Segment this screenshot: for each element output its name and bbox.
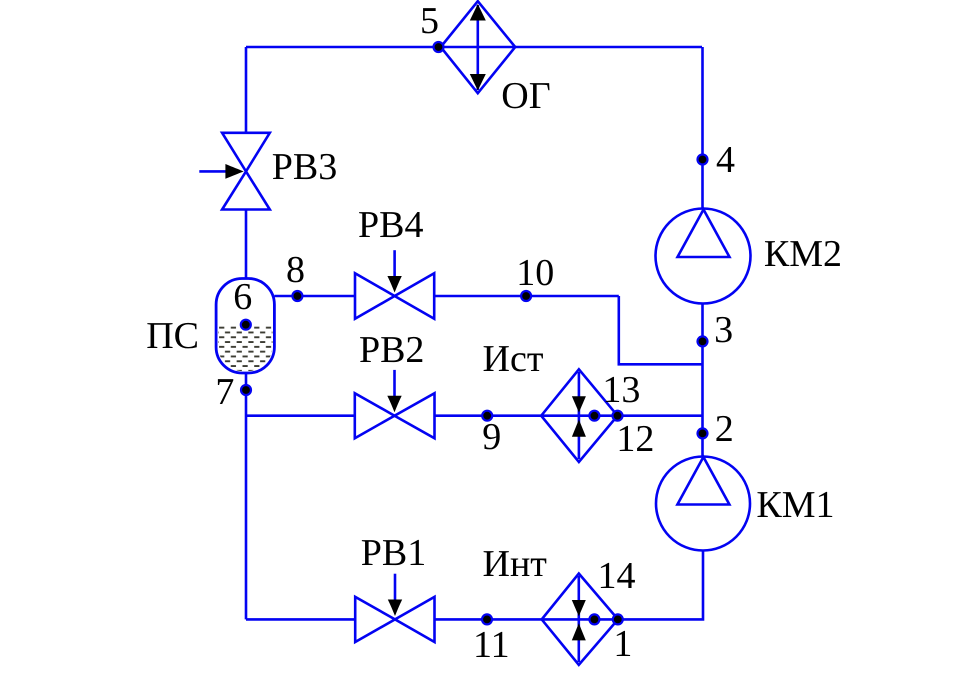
svg-text:13: 13	[602, 369, 640, 411]
node 14	[589, 555, 635, 624]
node 7	[215, 371, 251, 413]
node 3	[698, 309, 734, 351]
svg-text:1: 1	[613, 623, 632, 665]
node 1	[613, 614, 633, 665]
node 10	[516, 252, 554, 301]
node 6	[233, 276, 252, 330]
valve РВ3	[199, 133, 269, 210]
evaporator Инт	[542, 574, 618, 665]
svg-text:Ист: Ист	[483, 338, 544, 380]
svg-text:4: 4	[716, 139, 735, 181]
compressor КМ1	[656, 457, 750, 551]
node 4	[698, 139, 736, 181]
svg-text:Инт: Инт	[483, 543, 548, 585]
wire bottom left	[246, 618, 355, 621]
wire РВ2 to Ист	[435, 414, 542, 417]
svg-text:6: 6	[233, 276, 252, 318]
vessel ПС	[216, 279, 275, 374]
svg-text:КМ1: КМ1	[756, 484, 834, 526]
svg-text:11: 11	[473, 624, 510, 666]
svg-text:РВ1: РВ1	[361, 532, 426, 574]
svg-text:9: 9	[482, 416, 501, 458]
wire top horizontal	[246, 46, 702, 49]
node 9	[482, 411, 501, 458]
wire left vertical upper	[245, 47, 248, 133]
evaporator Ист	[541, 369, 617, 462]
svg-text:КМ2: КМ2	[764, 233, 842, 275]
svg-text:РВ4: РВ4	[358, 204, 423, 246]
svg-text:РВ3: РВ3	[272, 146, 337, 188]
svg-text:12: 12	[616, 418, 654, 460]
wire right vertical upper	[701, 47, 704, 209]
node 11	[473, 614, 510, 666]
heat exchanger ОГ	[441, 1, 516, 93]
wire Ист to right vertical	[618, 414, 703, 417]
svg-text:ПС: ПС	[146, 315, 199, 357]
valve РВ2	[355, 370, 435, 438]
wire РВ1 to Инт	[435, 618, 542, 621]
wire elbow down to КМ2 suction line	[619, 296, 703, 364]
valve РВ4	[355, 250, 434, 319]
node 5	[420, 0, 444, 52]
wire left vertical (valve to vessel)	[245, 210, 248, 279]
wire right vertical lower to bottom line	[618, 551, 703, 620]
svg-text:2: 2	[715, 408, 734, 450]
wire vessel to valve РВ4	[274, 295, 355, 298]
wire Ист line left	[246, 414, 355, 417]
compressor КМ2	[656, 209, 751, 304]
svg-text:РВ2: РВ2	[359, 329, 424, 371]
svg-text:3: 3	[714, 309, 733, 351]
wire left vertical lower	[245, 373, 248, 619]
wire РВ4 to elbow	[434, 295, 619, 298]
wire right vertical middle	[701, 304, 704, 457]
svg-text:8: 8	[286, 249, 305, 291]
svg-text:14: 14	[598, 555, 636, 597]
svg-text:10: 10	[516, 252, 554, 294]
svg-text:7: 7	[215, 371, 234, 413]
svg-text:5: 5	[420, 0, 439, 42]
svg-text:ОГ: ОГ	[501, 75, 550, 117]
node 2	[698, 408, 734, 450]
valve РВ1	[355, 574, 434, 642]
node 12	[613, 411, 655, 460]
node 8	[286, 249, 305, 301]
node 13	[589, 369, 640, 421]
